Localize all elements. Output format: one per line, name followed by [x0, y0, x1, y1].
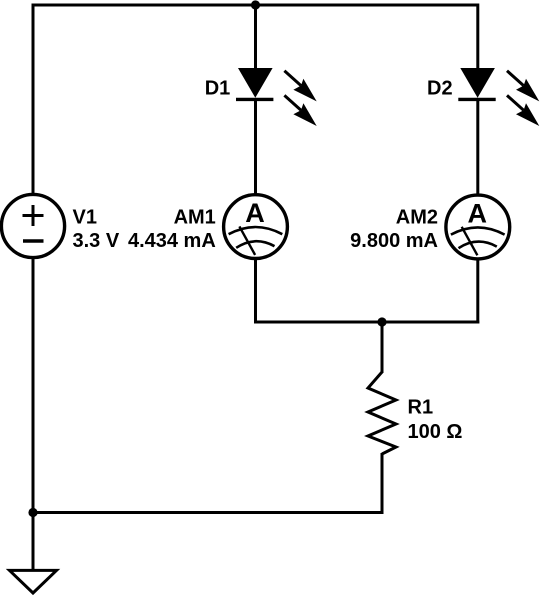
- LED D2 emission arrow 1: [507, 71, 539, 102]
- LED D1 emission arrow 2: [284, 95, 316, 126]
- wire: left vertical, top corner down to V1: [32, 4, 35, 195]
- svg-text:D2: D2: [427, 77, 453, 99]
- svg-text:V1: V1: [73, 207, 97, 229]
- wire: junction down to ground: [32, 513, 35, 571]
- svg-text:A: A: [468, 198, 488, 228]
- svg-text:R1: R1: [408, 397, 434, 419]
- wire: D1 cathode to AM1: [254, 99, 257, 195]
- ammeter AM1: [224, 195, 288, 259]
- ground: [10, 570, 57, 593]
- wire: top horizontal net: [33, 4, 478, 7]
- wire: junction down to R1: [381, 322, 384, 373]
- wire: D2 anode from top-right corner: [476, 4, 479, 70]
- LED D2 emission arrow 2: [507, 95, 539, 126]
- wire: D1 anode from top junction: [254, 5, 257, 69]
- wire: D2 cathode to AM2: [476, 99, 479, 195]
- wire: AM1 bottom to middle horizontal net: [254, 259, 257, 324]
- LED D1: [236, 68, 273, 99]
- svg-text:4.434 mA: 4.434 mA: [128, 230, 216, 252]
- node: bottom-left junction dot: [28, 508, 37, 517]
- svg-text:3.3 V: 3.3 V: [73, 230, 120, 252]
- voltage source V1: [1, 194, 64, 257]
- wire: AM2 bottom to middle horizontal net: [476, 259, 479, 324]
- LED D2: [458, 68, 495, 99]
- svg-text:9.800 mA: 9.800 mA: [350, 230, 438, 252]
- resistor R1: [368, 372, 396, 454]
- wire: V1 bottom down to bottom-left junction: [32, 258, 35, 513]
- wire: middle horizontal net: [254, 321, 479, 324]
- svg-text:AM2: AM2: [396, 207, 438, 229]
- node: top junction dot: [251, 0, 260, 9]
- wire: R1 bottom down: [381, 453, 384, 514]
- svg-text:A: A: [245, 198, 265, 228]
- svg-text:D1: D1: [205, 77, 231, 99]
- ammeter AM2: [446, 195, 510, 259]
- wire: bottom horizontal net: [33, 511, 384, 514]
- svg-text:100 Ω: 100 Ω: [408, 421, 463, 443]
- LED D1 emission arrow 1: [284, 71, 316, 102]
- node: middle junction dot: [377, 317, 386, 326]
- svg-text:AM1: AM1: [174, 207, 216, 229]
